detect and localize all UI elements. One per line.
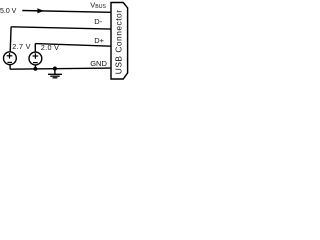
USB connector outline [111, 3, 128, 80]
V1 minus sign [7, 61, 12, 63]
ground bar 3 [53, 77, 58, 79]
wire D- [11, 27, 111, 29]
voltage source V1 2.7V circle [3, 52, 16, 65]
V2 plus sign [33, 55, 39, 57]
svg-text:2.7 V: 2.7 V [12, 42, 31, 51]
svg-text:D+: D+ [94, 36, 104, 45]
wire GND rail [10, 68, 111, 69]
V1 plus sign [7, 55, 13, 57]
wire V1 bottom stub [9, 65, 11, 70]
svg-text:USB Connector: USB Connector [114, 10, 124, 75]
voltage source V2 2.0V circle [29, 52, 42, 65]
V2 minus sign [33, 62, 38, 64]
wire D+ [35, 44, 111, 47]
junction dot ground stem [53, 67, 57, 71]
junction dot V2/GND [33, 67, 37, 71]
wire V2 bottom stub [34, 65, 36, 69]
ground bar 2 [50, 75, 59, 77]
arrowhead on VBUS wire [37, 8, 43, 13]
ground stem [54, 69, 56, 75]
svg-text:D-: D- [94, 17, 102, 26]
svg-text:5.0 V: 5.0 V [0, 8, 17, 15]
wire left vertical from D- to V1 [9, 27, 12, 52]
svg-text:GND: GND [90, 59, 107, 68]
wire VBUS [22, 11, 111, 13]
wire V2 top stub [34, 44, 36, 53]
ground bar 1 [48, 73, 62, 75]
